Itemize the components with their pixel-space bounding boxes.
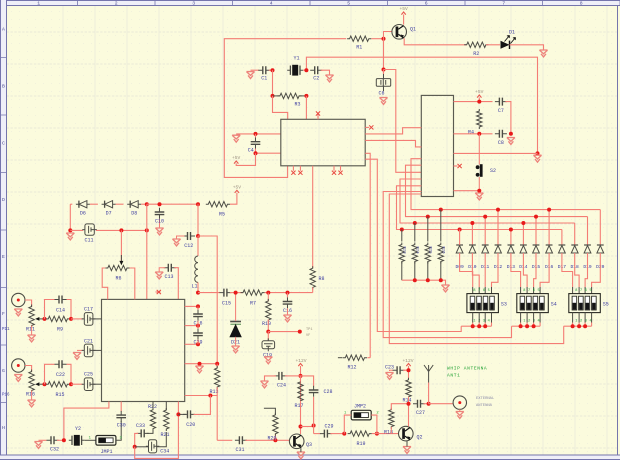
wire R8 to main line: [312, 287, 314, 292]
ground U2 pin: [195, 366, 203, 373]
junction TP end: [298, 330, 302, 334]
svg-text:R10: R10: [262, 321, 271, 327]
wire R3 right lead: [299, 95, 306, 97]
svg-text:4: 4: [270, 1, 273, 7]
wire C15 to R7: [230, 292, 243, 294]
wire C31 to Q3 base: [245, 439, 289, 441]
junction D09 bus tap: [458, 228, 462, 232]
wire U1 to U3 bus1: [365, 128, 421, 134]
wire R10 top lead: [267, 293, 269, 302]
wire C24 to ground: [265, 376, 276, 381]
bottom ruler band: [0, 455, 620, 460]
ground C2: [325, 75, 333, 82]
wire U2 to R22: [152, 402, 154, 410]
svg-text:TP1: TP1: [306, 328, 312, 332]
junction D21 top: [234, 291, 238, 295]
wire gnd to C21: [77, 349, 83, 351]
wire Rnet4 top lead: [440, 210, 442, 242]
wire U2 to C20 node: [177, 402, 179, 415]
svg-text:+5V: +5V: [232, 155, 241, 161]
svg-text:P11: P11: [2, 328, 10, 332]
wire JMP2 left pin: [344, 415, 351, 434]
junction R3 right: [304, 94, 308, 98]
ground C32: [34, 442, 42, 449]
wire S3 ground rail: [461, 325, 491, 327]
wire S5 pin1 top lead: [572, 287, 574, 294]
capacitor C4: [251, 138, 261, 149]
svg-text:7: 7: [502, 1, 505, 7]
wire S5 pin2 to rail: [578, 323, 580, 327]
power +12V Q2: [402, 358, 413, 366]
svg-text:+5V: +5V: [475, 89, 484, 95]
diode D8: [127, 201, 141, 217]
svg-text:C11: C11: [84, 238, 93, 244]
wire D1 to ground: [510, 45, 544, 50]
wire S3 pin3 top lead: [484, 287, 486, 294]
capacitor C17: [82, 307, 96, 326]
connector P16: [12, 359, 25, 372]
wire Q3 node to C28 column: [301, 426, 314, 428]
inductor L1: [191, 256, 198, 290]
svg-text:C1: C1: [261, 75, 267, 81]
svg-text:C12: C12: [184, 243, 193, 249]
wire S4 pin2 to rail: [526, 323, 528, 327]
ground P11: [14, 309, 22, 316]
junction ground stub: [198, 362, 202, 366]
diode D20: [597, 245, 604, 253]
wire C1 node to R3: [272, 70, 274, 96]
ground Q3: [297, 452, 305, 459]
wire R20 bottom lead: [274, 434, 276, 441]
junction R4 top: [477, 100, 481, 104]
svg-text:S2: S2: [490, 168, 496, 174]
junction R14/C27: [407, 402, 411, 406]
junction S2 ground: [477, 189, 481, 193]
capacitor C32: [47, 436, 60, 452]
junction C16/C29: [196, 324, 200, 328]
no-connect X U1 right: [369, 125, 373, 129]
junction R9 left: [43, 317, 47, 321]
svg-text:8765: 8765: [473, 289, 492, 293]
no-connect X U1 bottom 1: [291, 171, 295, 175]
junction D16 bus tap: [547, 208, 551, 212]
junction S3 rail pin1: [471, 324, 475, 328]
wire D17 anode to switch pin: [562, 253, 573, 287]
junction R15 left: [43, 382, 47, 386]
capacitor C7: [495, 98, 507, 114]
wire R10 to node: [267, 320, 269, 332]
wire R13 top lead: [216, 364, 218, 368]
wire junction to Q1 base: [384, 32, 392, 39]
diode D7: [102, 201, 116, 217]
capacitor C34: [146, 440, 159, 453]
capacitor C10: [155, 208, 165, 225]
resistor RN4: [438, 243, 443, 264]
pin stub X U2 top: [156, 291, 161, 293]
wire Q1 node to C6: [383, 39, 385, 70]
junction S5 rail pin3: [583, 324, 587, 328]
junction R4 bottom: [477, 132, 481, 136]
wire Rnet2 bottom lead: [414, 262, 416, 281]
wire D14 anode to switch pin: [523, 253, 527, 287]
wire R16 to ground: [31, 391, 33, 400]
wire D09 anode to switch pin: [460, 253, 473, 287]
wire S5 pin4 to rail: [591, 323, 593, 327]
wire D19 cathode to bus: [587, 217, 589, 245]
wire Rnet3 bottom lead: [427, 262, 429, 281]
wire L1 to main node: [197, 282, 199, 292]
wire gnd node to C11: [70, 229, 83, 231]
svg-text:D1: D1: [509, 30, 515, 36]
wire C4 bottom row: [256, 152, 281, 154]
transistor Q2: [399, 426, 423, 441]
svg-text:C17: C17: [84, 307, 93, 313]
svg-text:ANTENNA: ANTENNA: [476, 404, 493, 408]
wire U3 pin to S2 node: [454, 190, 480, 192]
wire C7 to down: [505, 102, 511, 134]
wire Q2 collector: [408, 404, 410, 427]
wire S4 pin4 to rail: [539, 323, 541, 327]
wire bus row1 to diodes: [411, 159, 600, 210]
svg-text:C8: C8: [498, 140, 504, 146]
svg-text:Y1: Y1: [293, 56, 299, 62]
junction Rnet1 top: [400, 228, 404, 232]
diode D6: [76, 201, 90, 217]
svg-text:1234: 1234: [473, 319, 492, 323]
wire U2 to R21: [165, 402, 167, 411]
junction D13 bus tap: [509, 228, 513, 232]
wire R6 wiper column: [120, 230, 122, 261]
wire resistor network common rail: [402, 280, 446, 284]
junction D8 right: [145, 202, 149, 206]
wire bus D U3 to DIP row3: [389, 194, 563, 344]
svg-text:C21: C21: [84, 338, 93, 344]
wire P11 to R11: [25, 300, 32, 307]
wire S3 pin2 top lead: [478, 287, 480, 294]
svg-text:C23: C23: [385, 364, 394, 370]
junction C32/Y2: [62, 438, 66, 442]
wire S5 pin3 top lead: [584, 287, 586, 294]
wire S4 pin4 top lead: [539, 287, 541, 294]
wire R5 to +5V: [230, 193, 237, 204]
jumper JMP2: [351, 404, 371, 420]
svg-text:6: 6: [425, 1, 428, 7]
svg-text:R1: R1: [356, 45, 362, 51]
power +5V C7: [475, 89, 484, 98]
junction S3 rail pin2: [477, 324, 481, 328]
junction C4 bottom: [254, 151, 258, 155]
wire C1 to junction: [269, 69, 273, 71]
wire U3 pin to +5V row: [454, 101, 493, 103]
wire R13 node down to C31 row: [216, 396, 218, 441]
wire S5 pin3 to rail: [584, 323, 586, 327]
junction long wire ground: [536, 151, 540, 155]
wire S5 pin2 top lead: [578, 287, 580, 294]
wire R11 to ground: [31, 326, 33, 335]
wire C31 row left: [217, 439, 232, 441]
resistor R13: [209, 366, 219, 395]
wire D20 anode to switch pin: [592, 253, 601, 287]
wire S3 pin2 bottom lead: [478, 313, 480, 323]
svg-text:R26: R26: [440, 246, 444, 254]
svg-text:C14: C14: [56, 308, 65, 314]
capacitor C29b: [320, 430, 332, 438]
wire D10 cathode to bus: [471, 223, 473, 245]
wire D16 cathode to bus: [548, 210, 550, 245]
ground long wire: [533, 155, 541, 162]
wire R7 to R8: [265, 292, 313, 294]
junction C16 top: [196, 304, 200, 308]
wire D20 cathode to bus: [599, 210, 601, 245]
wire R6 left to U2: [102, 268, 108, 299]
svg-text:C22: C22: [56, 372, 65, 378]
wire D21 top: [235, 293, 237, 321]
resistor R1: [347, 36, 371, 51]
ground C10: [155, 228, 163, 235]
capacitor C23: [393, 366, 405, 374]
svg-text:C20: C20: [186, 422, 195, 428]
wire P16 to R16: [25, 366, 32, 372]
wire C16 top lead: [197, 306, 199, 311]
wire C16 bottom lead: [197, 321, 199, 326]
junction S3 rail pin3: [483, 324, 487, 328]
wire S3 pin4 bottom lead: [491, 313, 493, 323]
svg-text:R8: R8: [318, 276, 324, 282]
svg-text:F: F: [2, 311, 5, 317]
wire C10 to ground: [159, 219, 161, 228]
resistor R2: [464, 42, 488, 57]
wire C29 row start: [314, 433, 321, 435]
svg-text:+5V: +5V: [233, 184, 242, 190]
wire gnd to C32: [39, 439, 47, 441]
no-connect X U1 bottom 4: [338, 171, 342, 175]
whip antenna ANT1: [424, 365, 433, 383]
wire R16 wiper to junction: [39, 383, 44, 385]
ground C11 row: [66, 233, 74, 240]
svg-text:R20: R20: [267, 436, 276, 442]
junction R6 wiper tap: [119, 228, 123, 232]
svg-text:D8: D8: [131, 211, 137, 217]
wire bus row4 to diodes: [397, 186, 562, 230]
wire S5 pin4 bottom lead: [591, 313, 593, 323]
wire bus row3 to diodes: [400, 179, 575, 223]
capacitor C1: [258, 66, 270, 81]
resistor R11: [26, 305, 35, 333]
pin stub X U3 right: [454, 165, 458, 167]
resistor R9: [46, 316, 70, 332]
wire Rnet1 bottom lead: [401, 262, 403, 281]
wire Q1 collector to +5V: [403, 15, 405, 25]
wire C23 to +12V column: [403, 369, 408, 371]
svg-text:R16: R16: [26, 392, 35, 398]
diode D14: [520, 245, 527, 253]
right sheet border: [617, 6, 619, 456]
wire D18 cathode to bus: [574, 223, 576, 245]
junction C11 left: [68, 228, 72, 232]
wire C20 right up: [194, 396, 211, 415]
resistor R16: [26, 370, 35, 398]
wire C33 to column: [135, 433, 139, 446]
wire R18 top: [391, 404, 408, 410]
wire gnd to C23: [390, 369, 394, 372]
wire Rnet2 top lead: [414, 223, 416, 242]
junction C20 column: [208, 394, 212, 398]
op-amp U1: [281, 119, 365, 166]
svg-text:R24: R24: [414, 246, 418, 254]
junction S5 rail pin1: [571, 324, 575, 328]
junction C28 bottom: [312, 424, 316, 428]
wire main line L1 to C15: [198, 292, 220, 294]
wire S4 pin2 top lead: [526, 287, 528, 294]
junction Rnet4 top: [439, 208, 443, 212]
svg-text:S5: S5: [603, 302, 609, 308]
wire S2 top: [478, 134, 480, 165]
svg-text:D6: D6: [80, 211, 86, 217]
wire U3 pin to C8 row: [454, 133, 493, 135]
LED D1: [501, 30, 516, 50]
crystal Y2: [69, 426, 85, 446]
wire D15 anode to switch pin: [534, 253, 536, 287]
resistor R14: [406, 378, 411, 399]
transistor Q1: [392, 25, 416, 40]
svg-text:EXTERNAL: EXTERNAL: [476, 397, 495, 401]
wire C18 to ground: [287, 308, 289, 314]
junction Y1/C2: [304, 68, 308, 72]
svg-text:R2: R2: [473, 51, 479, 57]
wire D11 cathode to bus: [484, 217, 486, 245]
ground C4: [232, 135, 240, 142]
wire JMP2 right pin: [371, 415, 377, 434]
wire bus A U1 to R12: [365, 153, 370, 357]
resonator C6: [376, 74, 390, 97]
svg-text:C2: C2: [313, 75, 319, 81]
wire S3 pin1 to rail: [472, 323, 474, 327]
wire D8 column down to U2: [146, 204, 148, 299]
svg-text:C33: C33: [136, 423, 145, 429]
junction R3 left: [271, 94, 275, 98]
resistor R18: [389, 408, 394, 429]
wire R17 to Q3 collector: [300, 401, 302, 434]
wire Rnet4 bottom lead: [440, 262, 442, 281]
ground C19: [264, 357, 272, 364]
wire C14 right: [67, 300, 72, 319]
resistor R8: [310, 266, 325, 289]
wire D6 down: [69, 204, 71, 230]
ground C13: [155, 272, 163, 279]
wire U1 pin to R8: [312, 166, 314, 268]
junction S4 rail pin3: [532, 324, 536, 328]
junction R15 right: [69, 382, 73, 386]
wire D7 to D8: [116, 203, 124, 205]
wire S3 pin2 to rail: [478, 323, 480, 327]
jumper JMP1: [96, 436, 116, 456]
svg-text:VF: VF: [306, 334, 310, 338]
no-connect X U1 top: [316, 111, 320, 115]
capacitor C31: [235, 436, 247, 453]
wire D09 cathode to bus: [459, 230, 461, 245]
wire D13 anode to switch pin: [511, 253, 521, 287]
wire +5V to row: [478, 97, 480, 101]
wire S4 pin1 bottom lead: [520, 313, 522, 323]
wire S3 pin1 bottom lead: [472, 313, 474, 323]
switch S2: [476, 164, 496, 177]
wire +12V down: [300, 366, 302, 402]
connector external antenna: [453, 396, 466, 409]
wire diode row to R5: [147, 203, 198, 205]
wire U1 pin6 loop to R1: [224, 39, 346, 178]
wire Q3 emitter: [300, 448, 302, 452]
capacitor C24: [274, 372, 286, 389]
wire U2 pin to C16 top: [185, 305, 198, 307]
wire C29a top lead: [197, 326, 199, 331]
capacitor C25: [82, 372, 96, 391]
resistor R6: [105, 265, 129, 281]
diode D21: [230, 322, 241, 346]
svg-text:R17: R17: [294, 403, 303, 409]
junction S5 rail pin2: [577, 324, 581, 328]
svg-text:C27: C27: [416, 410, 425, 416]
capacitor C15: [219, 289, 231, 307]
wire R13 bottom to U2: [185, 387, 218, 395]
resistor RN2: [412, 243, 417, 264]
wire D12 anode to switch pin: [492, 253, 499, 287]
svg-text:2: 2: [115, 1, 118, 7]
power +5V Q1 collector: [399, 6, 408, 15]
svg-text:Q1: Q1: [410, 27, 416, 33]
junction R9 right: [69, 317, 73, 321]
junction C10 tap: [158, 202, 162, 206]
wire C21 to U2: [93, 349, 102, 351]
svg-text:R9: R9: [57, 327, 63, 333]
pin stub X U1 right: [365, 126, 369, 128]
ground C12: [172, 239, 180, 246]
wire U2 pin to C29 bottom: [185, 343, 198, 345]
no-connect X U3 right: [458, 164, 462, 168]
svg-text:C30: C30: [117, 422, 126, 428]
ground C24: [260, 381, 268, 388]
wire S3 pin4 to rail: [491, 323, 493, 327]
svg-text:R6: R6: [115, 276, 121, 282]
svg-text:G: G: [2, 368, 5, 374]
wire JMP1 to C30 column: [116, 421, 121, 440]
junction C4 top: [254, 132, 258, 136]
resistor R7: [241, 290, 265, 307]
svg-text:WHIP ANTENNA: WHIP ANTENNA: [447, 366, 487, 372]
junction JMP2 pin1: [342, 432, 346, 436]
wire S4 ground rail: [512, 325, 540, 327]
wire R15 to C25: [71, 383, 83, 385]
svg-text:Q2: Q2: [416, 435, 422, 441]
wire R12 right to bus: [367, 357, 370, 359]
wire C4 top row: [236, 133, 281, 135]
capacitor C21: [82, 338, 96, 356]
diode D13: [508, 245, 515, 253]
wire R2 to D1: [486, 44, 500, 46]
wire U1 to U3 bus2: [365, 140, 421, 147]
wire C27 to antenna node: [424, 403, 429, 405]
wire C28 node down: [313, 426, 315, 434]
wire C13 to U2 pin: [174, 268, 178, 300]
diode D15: [533, 245, 540, 253]
wire U2 pin to C16 bottom: [185, 325, 198, 327]
ground external antenna: [456, 412, 464, 419]
ground C18: [283, 315, 291, 322]
wire D8 to junction: [141, 203, 147, 205]
wire bus B U1 to DIP row1: [365, 159, 461, 331]
wire C29 to R19 node: [330, 433, 344, 435]
wire C22 right: [67, 364, 72, 384]
wire S5 pin1 bottom lead: [572, 313, 574, 323]
